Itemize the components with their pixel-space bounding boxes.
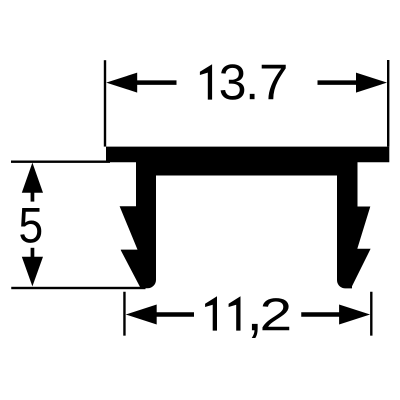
dimension 13.7 left arrow: [106, 73, 176, 93]
label 11,2: [205, 296, 289, 338]
dimension 5 bottom extension line: [11, 287, 145, 289]
label 5: [20, 208, 41, 243]
profile cross-section (top-hat barbed channel): [106, 147, 389, 289]
dimension 5 up arrow: [22, 163, 43, 202]
dimension 11,2 right arrow: [301, 305, 370, 325]
dimension 11,2 right extension line: [370, 292, 372, 336]
dimension 11,2 left arrow: [126, 305, 194, 325]
label 13.7: [200, 64, 286, 99]
dimension 13.7 right arrow: [318, 73, 388, 93]
dimension 13.7 left extension line: [104, 60, 106, 146]
dimension 11,2 left extension line: [123, 292, 125, 336]
dimension 13.7 right extension line: [387, 60, 389, 147]
dimension 5 down arrow: [22, 248, 43, 287]
dimension 5 top extension line: [11, 161, 110, 163]
